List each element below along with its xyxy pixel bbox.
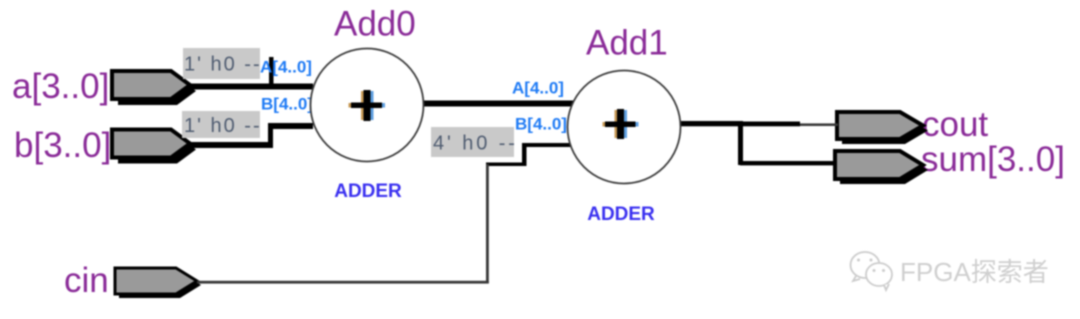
svg-text:1' h0 --: 1' h0 --	[184, 115, 262, 137]
input port b[3..0]	[112, 130, 196, 164]
wire branch to cout thin part	[800, 123, 838, 126]
svg-text:A[4..0]: A[4..0]	[512, 79, 564, 98]
input port a[3..0]	[112, 71, 196, 105]
svg-text:b[3..0]: b[3..0]	[14, 126, 111, 165]
plus symbol Add1	[615, 110, 618, 138]
svg-text:cout: cout	[922, 105, 988, 144]
wire Add0 output to Add1.A (bus)	[423, 101, 573, 107]
svg-text:1' h0 --: 1' h0 --	[184, 54, 262, 76]
wire cin horizontal (thin)	[197, 281, 489, 284]
svg-text:Add1: Add1	[586, 24, 668, 63]
constant box 1'h0 (lower)	[182, 111, 260, 138]
svg-text:B[4..0]: B[4..0]	[261, 95, 313, 114]
wire branch to sum (bus)	[740, 161, 836, 165]
svg-text:Add0: Add0	[334, 5, 416, 44]
svg-text:sum[3..0]: sum[3..0]	[921, 140, 1065, 179]
plus symbol Add0	[361, 91, 364, 120]
wire Add1.B lower horizontal	[486, 163, 527, 167]
constant box 1'h0 (upper)	[183, 48, 260, 79]
wire branch to cout thick part	[740, 122, 800, 127]
svg-text:ADDER: ADDER	[587, 204, 655, 225]
svg-text:a[3..0]: a[3..0]	[12, 67, 109, 106]
adder U Add1 circle	[568, 71, 681, 184]
wire junction vertical	[738, 121, 743, 165]
wire stub constant 1'h0 to A bus	[269, 57, 274, 89]
wire cin vertical (thin)	[486, 164, 489, 283]
output port cout	[837, 112, 928, 144]
svg-text:FPGA探索者: FPGA探索者	[900, 257, 1049, 287]
wire Add1 output (bus)	[680, 121, 743, 126]
svg-text:B[4..0]: B[4..0]	[515, 115, 567, 134]
output port sum[3..0]	[835, 151, 928, 184]
constant box 4'h0	[431, 127, 514, 157]
svg-text:4' h0 --: 4' h0 --	[433, 133, 518, 155]
input port cin	[115, 268, 201, 298]
adder U Add0 circle	[311, 49, 424, 162]
svg-text:ADDER: ADDER	[334, 181, 402, 202]
wire step to Add0.B (bus)	[268, 123, 313, 129]
wire a to Add0.A (bus)	[190, 84, 313, 90]
wire step vertical b	[268, 123, 273, 148]
wire b to step (bus)	[190, 142, 272, 148]
svg-text:cin: cin	[64, 261, 109, 300]
wire Add1.B vertical step	[522, 143, 527, 166]
watermark wechat icon	[851, 252, 893, 290]
svg-text:A[4..0]: A[4..0]	[260, 58, 312, 77]
wire Add1.B horizontal (bus)	[523, 143, 572, 147]
